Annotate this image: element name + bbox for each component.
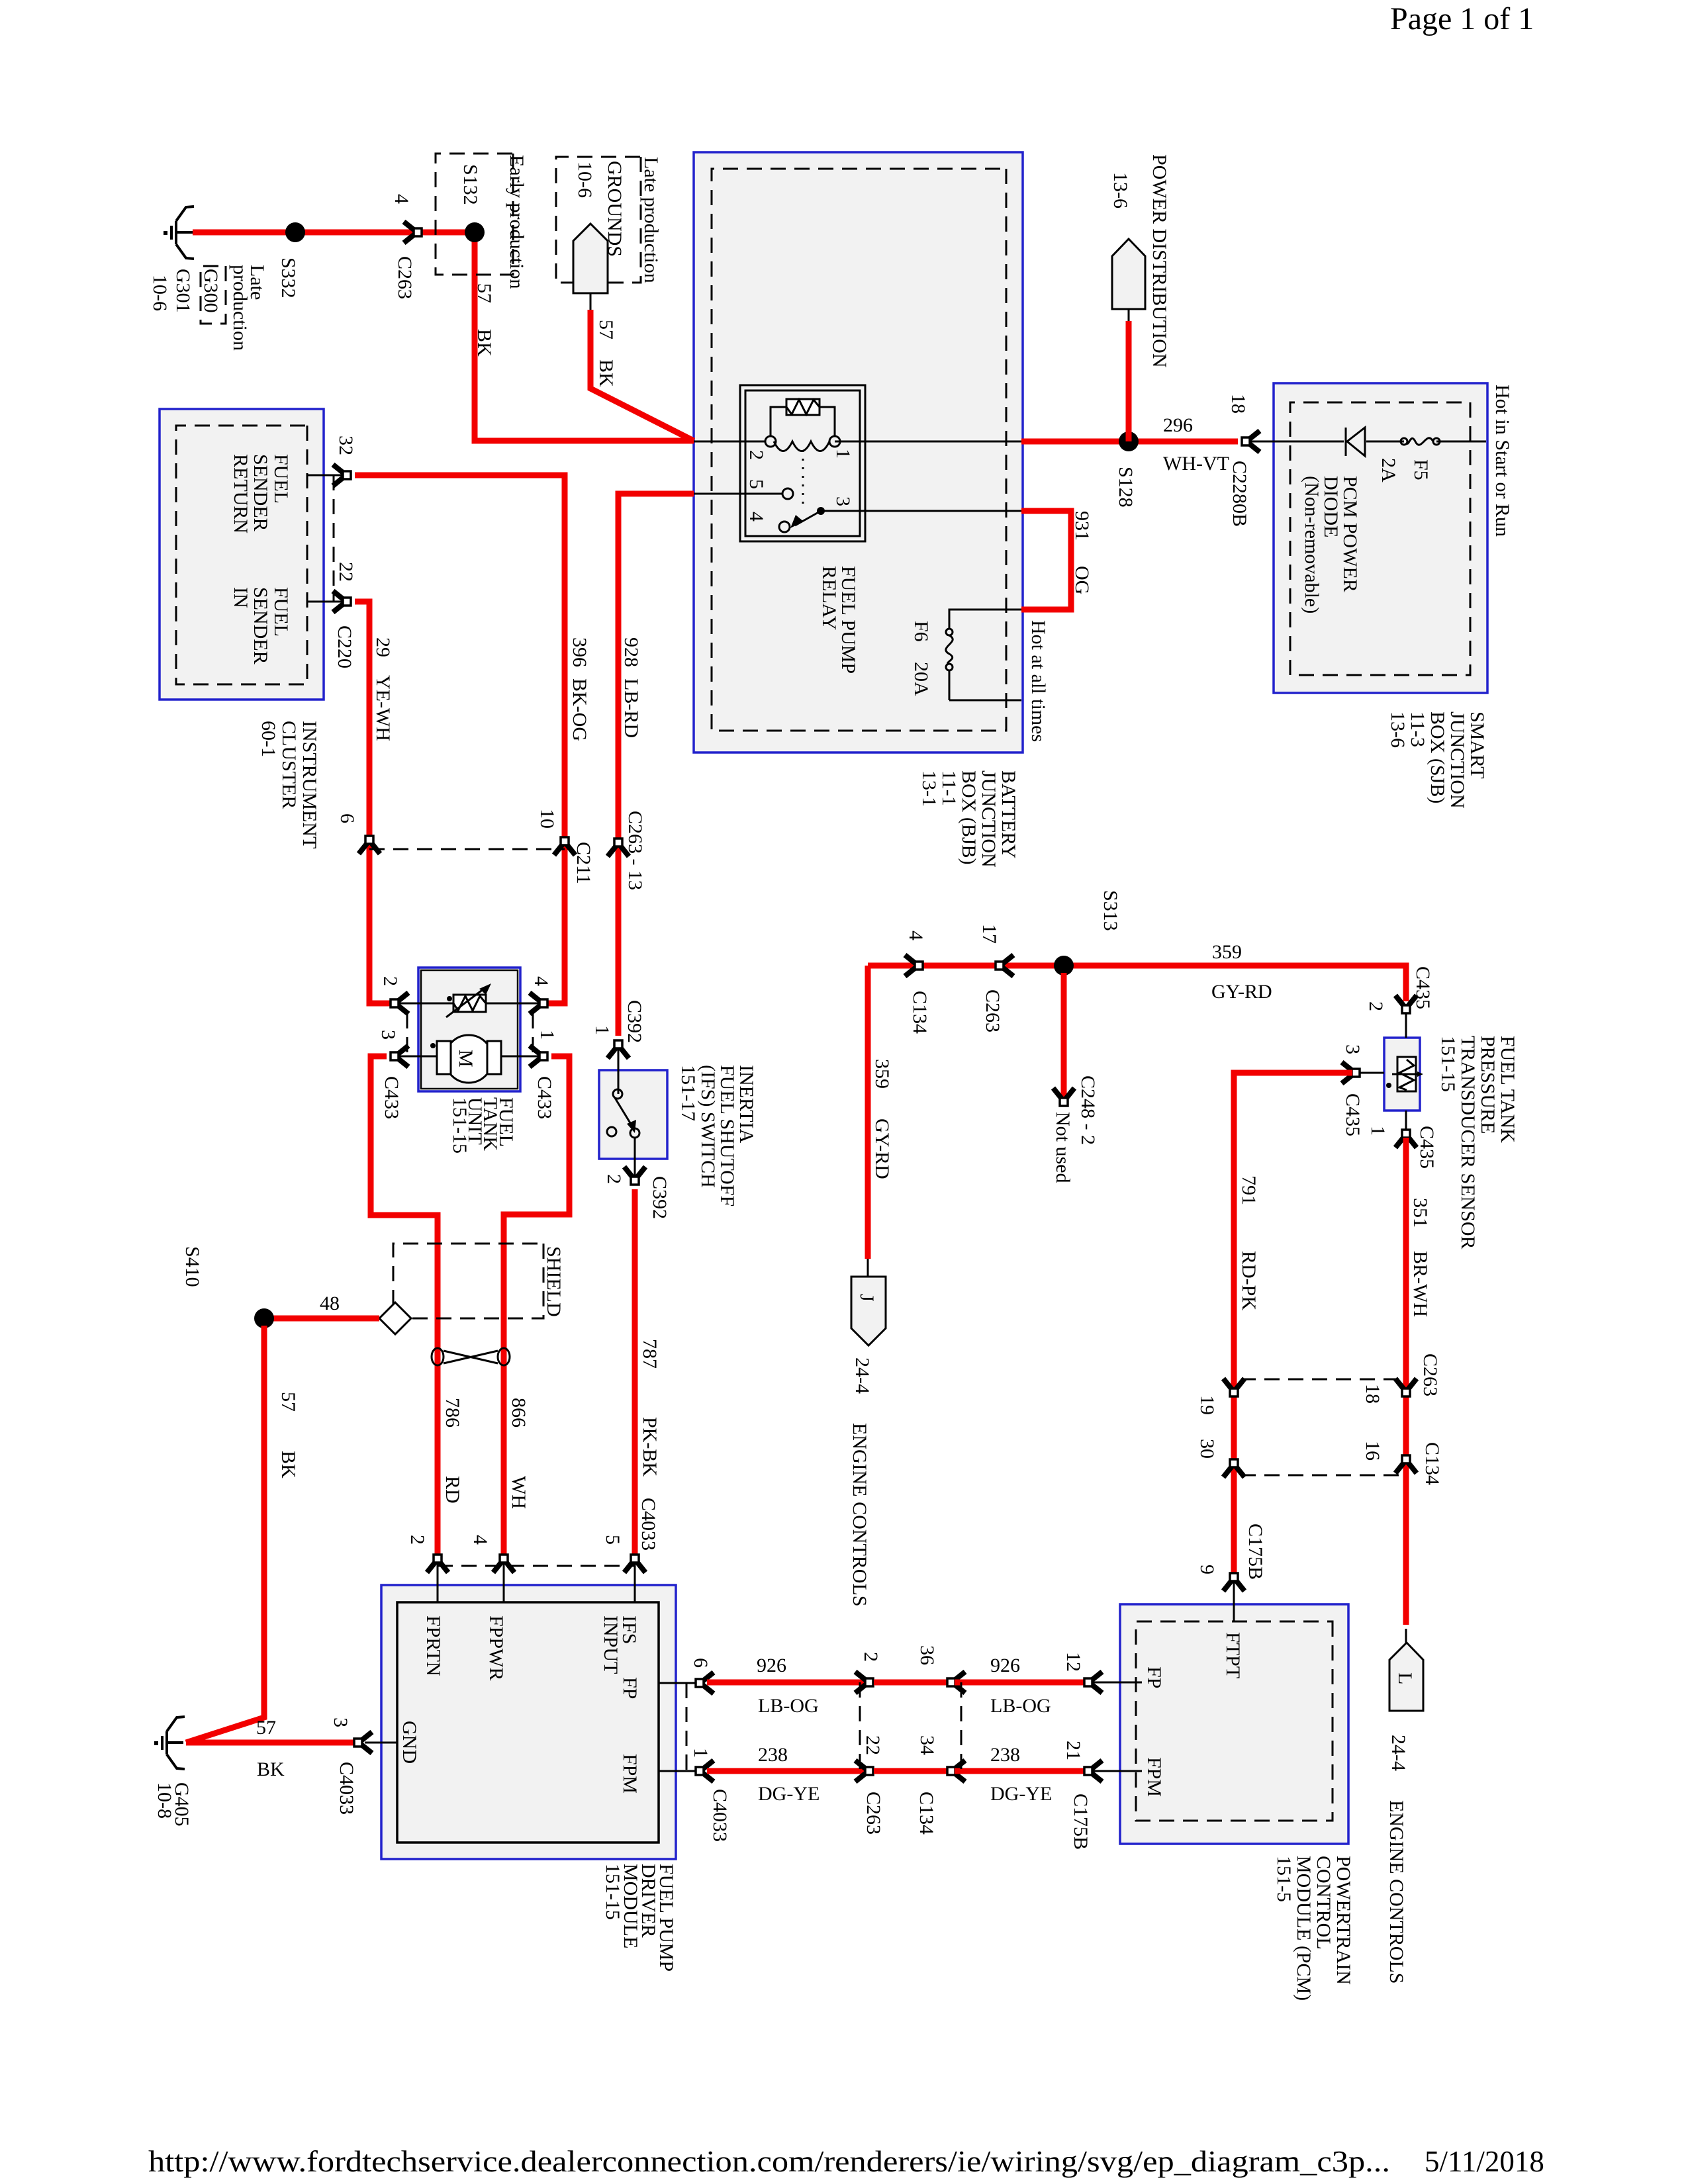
C435 pin 2 stub: [1405, 1014, 1407, 1038]
wire 931 OG loop: [1021, 511, 1071, 610]
grounds flag pentagon: [573, 224, 608, 293]
connector C435 pin 2 arrow: [1395, 995, 1417, 1013]
FTPT lead into PCM: [1233, 1580, 1235, 1621]
svg-text:S313: S313: [1100, 890, 1121, 931]
svg-text:SHIELD: SHIELD: [543, 1246, 565, 1317]
wire relay pin 3 to BJB top edge: [821, 510, 1021, 512]
svg-text:24-4: 24-4: [851, 1357, 873, 1394]
shield drain diamond: [379, 1302, 411, 1334]
connector C4033 pin 4 arrow: [493, 1555, 514, 1572]
svg-text:GND: GND: [399, 1721, 420, 1764]
connector C175B pin 12 arrow: [1084, 1672, 1102, 1693]
wire relay pin 5 to BJB edge: [694, 493, 782, 495]
power distribution flag: [1112, 239, 1145, 309]
relay coil: [774, 441, 829, 451]
svg-text:BK-OG: BK-OG: [569, 678, 590, 741]
fuel level var resistor lead line: [398, 1003, 540, 1005]
svg-text:1: 1: [591, 1025, 613, 1035]
svg-text:30: 30: [1196, 1439, 1218, 1459]
svg-text:359: 359: [1212, 941, 1242, 963]
IFS switch lead in: [618, 1048, 620, 1094]
svg-text:Early production: Early production: [506, 155, 528, 289]
svg-text:BK: BK: [595, 359, 617, 387]
wire 351 BR-WH: [1403, 1138, 1409, 1625]
svg-text:FTPT: FTPT: [1222, 1632, 1244, 1678]
svg-text:931: 931: [1071, 511, 1093, 541]
relay actuation dotted line: [802, 450, 804, 504]
connector C175B pin 21 arrow: [1084, 1760, 1102, 1782]
connector C263 pin 18 arrow: [1395, 1379, 1417, 1396]
svg-text:C263: C263: [863, 1792, 884, 1835]
wire relay pin2 to BJB edge: [694, 441, 765, 443]
splice S332: [285, 222, 305, 242]
svg-text:C435: C435: [1416, 1126, 1438, 1169]
svg-text:ENGINE CONTROLS: ENGINE CONTROLS: [1385, 1800, 1407, 1984]
svg-text:1: 1: [690, 1748, 712, 1758]
connector C263 pin 2 arrow: [855, 1672, 873, 1693]
splice S410: [254, 1308, 274, 1328]
dashed box around S132: [436, 154, 513, 275]
svg-text:19: 19: [1196, 1395, 1218, 1415]
svg-text:396: 396: [569, 637, 590, 667]
svg-text:866: 866: [508, 1398, 530, 1428]
wire 926 LB-OG segment 2: [955, 1680, 1084, 1686]
IC pin 22 lead: [307, 601, 344, 603]
IFS switch arm: [615, 1098, 632, 1125]
FP pin lead: [659, 1682, 695, 1684]
svg-text:DG-YE: DG-YE: [758, 1783, 820, 1805]
wire 786 RD from fuel tank unit pin 3 to FPDM FPRTN: [371, 1056, 438, 1554]
FTP sensor wiper dot: [1386, 1083, 1391, 1088]
connector C4033 pin 1 arrow: [696, 1760, 714, 1782]
dashed connector group line C263: [1241, 1379, 1399, 1381]
dashed connector line C4033: [438, 1565, 635, 1567]
relay resistor box: [786, 399, 820, 415]
svg-text:3: 3: [377, 1030, 399, 1040]
svg-text:34: 34: [916, 1735, 938, 1755]
connector C263 pin 19 arrow: [1223, 1379, 1244, 1396]
relay switch arm: [795, 511, 821, 525]
fuel level sender variable resistor: [453, 995, 486, 1012]
svg-text:18: 18: [1227, 394, 1249, 414]
relay resistor zigzag: [786, 400, 820, 414]
svg-text:C433: C433: [381, 1076, 402, 1119]
svg-text:5/11/2018: 5/11/2018: [1425, 2145, 1544, 2178]
svg-text:926: 926: [990, 1655, 1020, 1676]
svg-text:C392: C392: [624, 1000, 645, 1043]
FP lead into PCM: [1092, 1682, 1142, 1684]
ground G300/G301: [164, 206, 194, 259]
svg-text:C4033: C4033: [709, 1789, 731, 1842]
FPPWR lead: [503, 1562, 505, 1602]
svg-text:S132: S132: [459, 164, 481, 205]
IFS INPUT lead: [634, 1562, 636, 1602]
wire inside SJB to diode and fuse F5: [1249, 441, 1486, 443]
connector C435 pin 3 arrow: [1342, 1062, 1360, 1083]
svg-text:WH: WH: [508, 1476, 530, 1509]
connector C134 pin 34 arrow: [947, 1760, 965, 1782]
dashed connector line C220: [333, 475, 335, 602]
relay pin 4 contact: [779, 522, 790, 532]
svg-text:C175B: C175B: [1244, 1524, 1266, 1580]
splice S313: [1054, 956, 1074, 976]
svg-text:OG: OG: [1071, 566, 1093, 594]
connector C175B pin 9 arrow: [1223, 1573, 1244, 1591]
FTP sensor internals: [1397, 1057, 1416, 1091]
svg-text:6: 6: [690, 1658, 712, 1668]
svg-text:9: 9: [1196, 1565, 1218, 1574]
svg-text:4: 4: [391, 194, 412, 204]
IFS output contact lead: [630, 1128, 639, 1138]
svg-text:2: 2: [379, 976, 401, 986]
svg-text:17: 17: [978, 924, 1000, 944]
svg-text:G301: G301: [172, 269, 194, 313]
wire 57 BK from G405 to FPDM GND: [186, 1740, 353, 1746]
svg-text:Hot in Start or Run: Hot in Start or Run: [1491, 385, 1513, 537]
fuse F6: [946, 629, 953, 635]
wire BJB interior to relay pin 1: [835, 441, 1021, 443]
FPM lead into PCM: [1092, 1770, 1142, 1772]
svg-text:FP: FP: [1143, 1666, 1165, 1688]
fuel pump motor: [445, 1035, 492, 1083]
svg-text:351: 351: [1409, 1198, 1431, 1228]
C435 pin 3 stub: [1360, 1072, 1384, 1074]
svg-text:Late production: Late production: [640, 157, 662, 283]
svg-text:GY-RD: GY-RD: [871, 1118, 893, 1179]
relay switch pivot pin 3: [817, 507, 825, 515]
svg-text:F6: F6: [910, 621, 932, 642]
diode PCM power: [1347, 428, 1365, 456]
wire 359 GY-RD down to J flag: [865, 966, 871, 1259]
svg-text:C263: C263: [982, 989, 1004, 1032]
svg-text:2: 2: [860, 1652, 882, 1662]
wire 296 WH-VT red segment: [1021, 439, 1238, 445]
wire 396 BK-OG from IC pin 32 to fuel tank unit pin 4: [355, 475, 565, 1003]
dashed connector line C433 pins 4-1: [532, 1013, 534, 1056]
svg-text:57: 57: [473, 283, 495, 303]
svg-text:2: 2: [745, 450, 767, 460]
svg-text:296: 296: [1163, 414, 1193, 436]
svg-text:FPRTN: FPRTN: [422, 1615, 444, 1676]
connector C435 pin 1 arrow: [1395, 1130, 1417, 1148]
wire stub from grounds flag: [590, 293, 592, 310]
svg-text:13-6: 13-6: [1109, 172, 1131, 208]
svg-text:M: M: [455, 1050, 477, 1068]
svg-text:1: 1: [832, 449, 854, 459]
svg-text:2: 2: [1365, 1001, 1387, 1011]
svg-text:DG-YE: DG-YE: [990, 1783, 1052, 1805]
svg-text:57: 57: [595, 320, 617, 340]
svg-text:C4033: C4033: [637, 1498, 659, 1551]
svg-text:928: 928: [620, 637, 642, 667]
svg-text:BK: BK: [257, 1758, 285, 1780]
svg-text:48: 48: [320, 1293, 340, 1314]
connector C392 pin 2 arrow: [624, 1167, 645, 1185]
svg-text:C134: C134: [1421, 1442, 1443, 1485]
connector C263 pin 4 arrow: [404, 222, 422, 243]
splice S128: [1119, 432, 1139, 451]
svg-text:4: 4: [745, 512, 767, 522]
dashed connector line C211: [369, 848, 565, 850]
variable resistor arrow: [446, 987, 487, 1017]
twisted pair symbol: [498, 1348, 510, 1365]
svg-text:1: 1: [536, 1030, 558, 1040]
wire power distribution to S128: [1126, 321, 1132, 441]
svg-text:J: J: [856, 1294, 878, 1302]
IC pin 32 lead: [307, 475, 344, 477]
svg-text:BK: BK: [277, 1451, 299, 1479]
fuel pump motor lead line: [398, 1056, 540, 1058]
svg-text:21: 21: [1062, 1741, 1084, 1760]
IFS unused contact: [607, 1127, 616, 1136]
svg-text:10-6: 10-6: [149, 275, 171, 311]
svg-text:C263: C263: [394, 256, 416, 299]
svg-text:3: 3: [1342, 1044, 1364, 1054]
engine controls J flag: [851, 1277, 886, 1345]
fuel pump driver module box: [381, 1585, 676, 1859]
svg-text:PK-BK: PK-BK: [639, 1417, 661, 1477]
svg-text:C4033: C4033: [336, 1762, 357, 1815]
svg-text:G300: G300: [200, 269, 222, 313]
wire 926 LB-OG segment 1: [707, 1680, 866, 1686]
svg-text:3: 3: [330, 1717, 352, 1727]
svg-text:C134: C134: [915, 1792, 937, 1835]
svg-text:S128: S128: [1115, 467, 1137, 508]
svg-text:C175B: C175B: [1070, 1794, 1092, 1850]
dashed connector line C4033 FP-FPM: [686, 1683, 688, 1771]
svg-text:791: 791: [1238, 1175, 1260, 1205]
svg-text:10-6: 10-6: [574, 161, 596, 198]
wire 791 RD-PK: [1234, 1073, 1352, 1572]
svg-text:RD-PK: RD-PK: [1238, 1251, 1260, 1310]
connector C4033 pin 5 arrow: [624, 1555, 645, 1572]
wire 48 from shield to S410: [264, 1316, 379, 1322]
connector C2280B pin 18 arrow: [1242, 431, 1260, 452]
engine controls L flag: [1389, 1643, 1423, 1711]
GND lead into FPDM: [365, 1742, 397, 1744]
inertia fuel shutoff switch box: [599, 1070, 667, 1159]
dashed connector line C433 pins 2-3: [406, 1013, 408, 1056]
J flag stub: [867, 1259, 869, 1277]
FPM pin lead: [659, 1770, 695, 1772]
connector C211 pin 10 arrow: [554, 837, 575, 855]
connector C263 pin 36 arrow: [947, 1672, 965, 1693]
svg-text:12: 12: [1062, 1652, 1084, 1672]
relay pin 2 terminal: [765, 436, 776, 447]
instrument cluster box: [160, 409, 324, 700]
ground G405: [154, 1717, 185, 1769]
svg-text:238: 238: [990, 1744, 1020, 1766]
svg-text:L: L: [1394, 1672, 1416, 1684]
wire 359 GY-RD from J flag corner to sensor C435-2: [868, 966, 1406, 1001]
svg-text:2: 2: [603, 1174, 625, 1184]
svg-text:POWER DISTRIBUTION: POWER DISTRIBUTION: [1149, 154, 1170, 368]
svg-text:RD: RD: [442, 1476, 463, 1504]
svg-text:22: 22: [862, 1735, 884, 1755]
svg-text:LB-RD: LB-RD: [620, 678, 642, 738]
svg-text:LB-OG: LB-OG: [990, 1695, 1051, 1717]
wire 787 PK-BK from IFS to FPDM: [632, 1189, 638, 1554]
svg-text:C263 - 13: C263 - 13: [624, 811, 646, 890]
svg-text:36: 36: [916, 1645, 938, 1665]
relay coil suppression resistor leads: [771, 407, 835, 437]
connector arrow 6 on wire 29: [359, 836, 380, 854]
wire 928 LB-RD from relay pin 5 to IFS switch: [618, 494, 694, 1036]
svg-text:LB-OG: LB-OG: [758, 1695, 819, 1717]
svg-text:57: 57: [277, 1392, 299, 1412]
wire 29 YE-WH from IC pin 22 to fuel tank unit pin 2: [355, 602, 390, 1003]
svg-text:F5: F5: [1410, 459, 1432, 480]
stub from power distribution flag: [1128, 309, 1130, 321]
svg-text:57: 57: [256, 1717, 276, 1739]
svg-text:FUELTANKUNIT151-15: FUELTANKUNIT151-15: [449, 1097, 517, 1154]
svg-text:WH-VT: WH-VT: [1163, 453, 1229, 475]
wire stub C248-2 not used: [1061, 973, 1067, 1099]
fuse F6 leads: [949, 610, 1021, 700]
svg-text:18: 18: [1362, 1384, 1383, 1404]
svg-text:786: 786: [442, 1398, 463, 1428]
dashed box grounds: [556, 157, 641, 283]
svg-text:FPM: FPM: [619, 1754, 641, 1794]
svg-text:ENGINE CONTROLS: ENGINE CONTROLS: [849, 1423, 870, 1607]
svg-text:C263: C263: [1419, 1353, 1441, 1396]
svg-text:Hot at all times: Hot at all times: [1027, 620, 1049, 742]
fuel tank unit pin 4 arrow: [530, 993, 547, 1014]
svg-text:GY-RD: GY-RD: [1211, 981, 1272, 1003]
svg-text:5: 5: [602, 1535, 624, 1545]
relay pin 5 terminal: [782, 488, 793, 499]
svg-text:FPM: FPM: [1143, 1757, 1165, 1797]
wire 57 BK from S132 to ground G300: [193, 232, 694, 441]
relay box: [740, 385, 865, 541]
fuel tank pressure transducer sensor box: [1384, 1038, 1420, 1111]
fuel tank unit pin 1 arrow: [530, 1046, 547, 1067]
svg-text:C248 - 2: C248 - 2: [1077, 1075, 1099, 1145]
wire 238 DG-YE segment 2: [955, 1768, 1084, 1774]
svg-text:22: 22: [335, 562, 357, 582]
svg-text:BK: BK: [473, 329, 495, 357]
svg-text:FP: FP: [619, 1677, 641, 1699]
svg-text:787: 787: [639, 1339, 661, 1369]
FPRTN lead: [437, 1562, 439, 1602]
connector C392 pin 1 arrow: [608, 1040, 629, 1058]
wire 57 BK from grounds flag to BJB: [590, 310, 694, 441]
svg-text:C2280B: C2280B: [1229, 461, 1250, 527]
svg-text:29: 29: [372, 637, 394, 657]
connector C220 pin 22 arrow: [333, 591, 351, 612]
connector C263 pin 17 arrow: [996, 955, 1013, 976]
IFS common contact: [613, 1089, 622, 1099]
connector C134 pin 30 arrow: [1223, 1459, 1244, 1477]
svg-text:4: 4: [530, 976, 552, 986]
svg-text:20A: 20A: [910, 662, 932, 696]
wire 238 DG-YE segment 1: [707, 1768, 866, 1774]
svg-text:5: 5: [745, 479, 767, 489]
wire 866 WH from fuel tank unit pin 1 to FPDM FPPWR: [504, 1056, 569, 1554]
battery junction box (BJB): [694, 152, 1023, 752]
shield dashed box: [393, 1244, 543, 1318]
svg-text:4: 4: [469, 1535, 491, 1545]
connector C4033 pin 3 arrow: [354, 1732, 372, 1753]
svg-text:1: 1: [1367, 1126, 1389, 1136]
svg-text:3: 3: [832, 496, 854, 506]
svg-text:Not used: Not used: [1052, 1112, 1074, 1183]
svg-text:4: 4: [905, 931, 927, 940]
svg-text:C211: C211: [573, 842, 594, 884]
connector C220 pin 32 arrow: [333, 465, 351, 486]
dashed connector group line C263/C134: [860, 1682, 961, 1771]
svg-text:6: 6: [336, 813, 358, 823]
svg-text:24-4: 24-4: [1387, 1735, 1409, 1771]
svg-text:2: 2: [406, 1535, 428, 1545]
svg-text:BR-WH: BR-WH: [1409, 1251, 1431, 1317]
splice S132: [465, 222, 485, 242]
fuel tank unit box: [418, 968, 520, 1091]
dashed connector group line C134: [1241, 1475, 1399, 1477]
fuel tank unit pin 3 arrow: [391, 1046, 408, 1067]
wire 57 BK from S410 to G405: [186, 1326, 264, 1743]
svg-text:C134: C134: [909, 991, 931, 1034]
wire 926 between C263 and C134: [874, 1680, 947, 1686]
smart junction box (SJB): [1274, 383, 1487, 693]
svg-text:C435: C435: [1412, 966, 1434, 1009]
svg-text:359: 359: [871, 1059, 893, 1089]
C435 pin 1 stub: [1405, 1111, 1407, 1129]
wire 238 between C263 and C134: [874, 1768, 947, 1774]
svg-text:C433: C433: [534, 1076, 555, 1119]
powertrain control module (PCM) box: [1120, 1604, 1348, 1844]
svg-text:32: 32: [335, 435, 357, 455]
svg-text:10: 10: [536, 809, 558, 829]
connector C248-2 arrow: [1053, 1088, 1074, 1106]
connector C263 pin 13 arrow: [608, 839, 629, 856]
connector C4033 pin 6 arrow: [696, 1672, 714, 1694]
svg-text:238: 238: [758, 1744, 788, 1766]
connector C134 pin 4 arrow: [905, 955, 923, 976]
connector C263 pin 22 arrow: [855, 1760, 873, 1782]
fuse F5: [1433, 438, 1440, 445]
connector C134 pin 16 arrow: [1395, 1455, 1417, 1473]
L flag stub: [1405, 1629, 1407, 1643]
svg-text:FPPWR: FPPWR: [485, 1615, 507, 1680]
svg-text:Page 1 of 1: Page 1 of 1: [1390, 1, 1534, 36]
svg-text:http://www.fordtechservice.dea: http://www.fordtechservice.dealerconnect…: [148, 2145, 1390, 2178]
svg-text:C220: C220: [334, 625, 355, 668]
dashed box around G300: [201, 266, 226, 324]
svg-text:C435: C435: [1342, 1093, 1364, 1136]
svg-text:C392: C392: [649, 1176, 671, 1219]
fuel tank unit pin 2 arrow: [391, 993, 408, 1014]
svg-text:S332: S332: [277, 257, 299, 298]
svg-text:16: 16: [1362, 1441, 1383, 1461]
svg-text:YE-WH: YE-WH: [372, 675, 394, 741]
relay pin 1 terminal: [829, 436, 840, 447]
svg-text:926: 926: [757, 1655, 786, 1676]
svg-text:2A: 2A: [1378, 458, 1399, 482]
connector C4033 pin 2 arrow: [427, 1555, 448, 1572]
svg-text:S410: S410: [181, 1246, 203, 1287]
